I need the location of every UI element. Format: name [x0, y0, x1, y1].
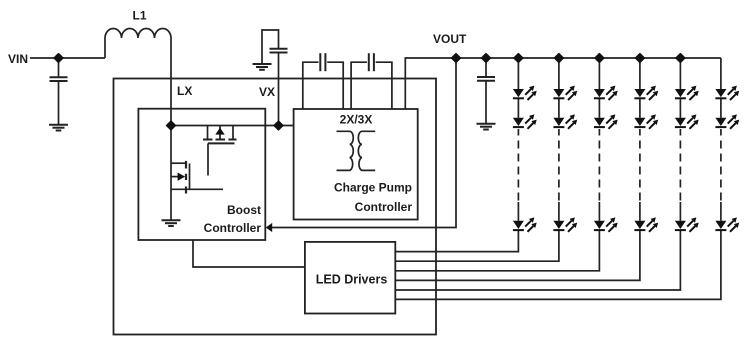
svg-text:VOUT: VOUT: [433, 32, 467, 46]
svg-text:2X/3X: 2X/3X: [340, 113, 373, 127]
svg-text:LED Drivers: LED Drivers: [316, 273, 388, 287]
svg-text:Controller: Controller: [355, 200, 413, 214]
svg-text:VX: VX: [259, 85, 275, 99]
svg-text:Controller: Controller: [204, 221, 262, 235]
svg-text:Charge Pump: Charge Pump: [334, 181, 412, 195]
svg-text:L1: L1: [133, 9, 147, 23]
svg-text:VIN: VIN: [8, 52, 28, 66]
svg-text:LX: LX: [177, 84, 192, 98]
svg-text:Boost: Boost: [227, 203, 261, 217]
